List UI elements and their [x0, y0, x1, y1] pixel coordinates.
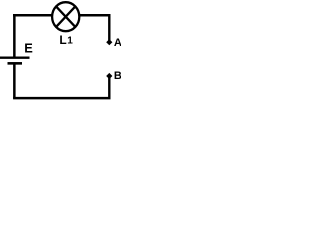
node A terminal dot	[106, 39, 112, 45]
wire left vertical upper	[13, 14, 16, 57]
wire right upper vertical	[108, 14, 110, 40]
battery E short plate (-)	[8, 62, 23, 65]
wire top-left horizontal	[13, 14, 53, 16]
battery E long plate (+)	[0, 56, 30, 58]
wire right lower vertical	[108, 77, 110, 99]
node B terminal dot	[106, 73, 112, 79]
svg-text:A: A	[114, 37, 121, 49]
wire bottom horizontal	[13, 97, 110, 100]
svg-text:E: E	[24, 40, 33, 55]
svg-text:1: 1	[67, 36, 73, 47]
lamp L1	[52, 2, 79, 31]
wire left vertical lower	[13, 64, 16, 99]
svg-text:B: B	[114, 70, 121, 82]
svg-text:L: L	[59, 33, 66, 47]
wire top-right horizontal	[79, 14, 111, 16]
